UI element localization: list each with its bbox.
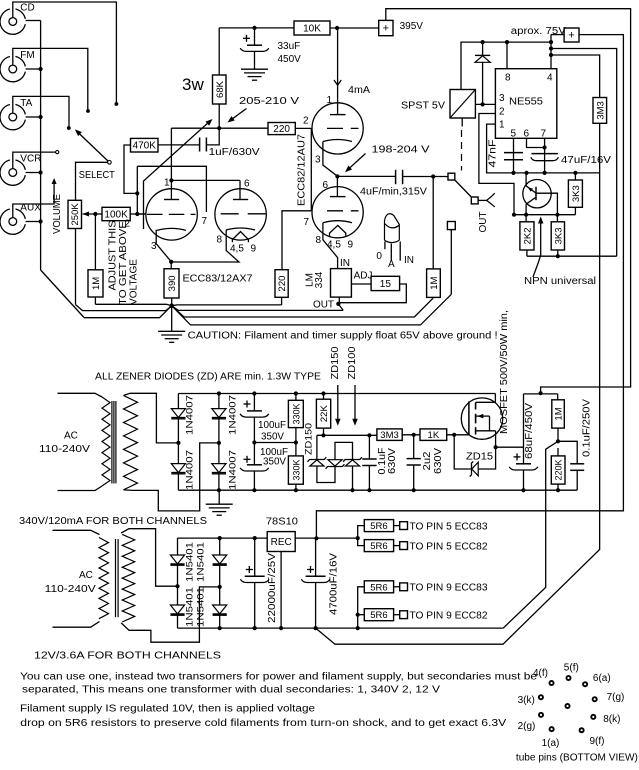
svg-text:1N4007: 1N4007	[184, 450, 195, 490]
svg-text:1M: 1M	[91, 277, 102, 290]
svg-text:MOSFET 500V/50W min,: MOSFET 500V/50W min,	[499, 310, 510, 434]
svg-text:3M3: 3M3	[380, 430, 398, 441]
svg-text:2K2: 2K2	[522, 227, 533, 244]
svg-text:78S10: 78S10	[266, 517, 298, 528]
svg-text:IN: IN	[404, 255, 414, 266]
svg-text:VCR: VCR	[20, 154, 41, 165]
svg-text:5R6: 5R6	[370, 582, 387, 593]
svg-text:aprox. 75V: aprox. 75V	[511, 26, 566, 37]
svg-text:drop on 5R6 resistors to prese: drop on 5R6 resistors to preserve cold f…	[20, 718, 506, 729]
svg-text:2: 2	[303, 116, 309, 127]
svg-text:4mA: 4mA	[348, 85, 370, 96]
svg-text:7: 7	[304, 217, 310, 228]
svg-text:198-204 V: 198-204 V	[372, 145, 430, 156]
svg-text:12V/3.6A FOR BOTH CHANNELS: 12V/3.6A FOR BOTH CHANNELS	[34, 651, 221, 662]
svg-text:334: 334	[314, 271, 325, 288]
svg-text:22K: 22K	[319, 405, 330, 423]
svg-text:340V/120mA FOR BOTH CHANNELS: 340V/120mA FOR BOTH CHANNELS	[19, 516, 207, 527]
svg-text:REC: REC	[271, 537, 292, 548]
svg-text:+: +	[383, 23, 389, 35]
svg-text:4700uF/16V: 4700uF/16V	[328, 553, 339, 615]
svg-text:1N4007: 1N4007	[228, 450, 239, 490]
svg-text:1N5401: 1N5401	[184, 542, 195, 582]
svg-text:OUT: OUT	[313, 300, 334, 311]
svg-text:AC: AC	[79, 570, 93, 581]
svg-text:3(k): 3(k)	[518, 695, 535, 706]
svg-text:1M: 1M	[429, 276, 440, 289]
svg-text:350V: 350V	[261, 432, 284, 443]
svg-text:1N4007: 1N4007	[184, 395, 195, 435]
svg-text:8: 8	[316, 235, 322, 246]
svg-text:250K: 250K	[70, 203, 81, 226]
svg-text:8(k): 8(k)	[603, 714, 620, 725]
svg-text:NPN universal: NPN universal	[524, 276, 596, 287]
svg-text:ECC82/12AU7: ECC82/12AU7	[297, 134, 308, 206]
svg-text:SELECT: SELECT	[79, 170, 115, 181]
svg-text:1: 1	[499, 120, 505, 131]
svg-text:ZD100: ZD100	[347, 346, 358, 379]
svg-text:630V: 630V	[387, 448, 398, 474]
svg-text:3M3: 3M3	[595, 101, 606, 119]
svg-text:TO PIN 9 ECC82: TO PIN 9 ECC82	[410, 610, 488, 621]
svg-text:9(f): 9(f)	[590, 736, 605, 747]
svg-text:110-240V: 110-240V	[39, 444, 90, 455]
svg-text:+: +	[568, 29, 574, 41]
svg-text:TO PIN 5 ECC83: TO PIN 5 ECC83	[410, 521, 488, 532]
svg-text:7: 7	[541, 129, 547, 140]
svg-text:3K3: 3K3	[571, 185, 582, 202]
svg-text:ZD15: ZD15	[466, 452, 493, 463]
svg-text:33uF: 33uF	[278, 41, 301, 52]
svg-text:10K: 10K	[303, 24, 321, 35]
svg-text:68K: 68K	[215, 80, 226, 98]
svg-text:TO PIN 9 ECC83: TO PIN 9 ECC83	[410, 583, 488, 594]
svg-text:FM: FM	[20, 50, 34, 61]
svg-text:5: 5	[511, 129, 517, 140]
svg-text:Filament supply IS regulated 1: Filament supply IS regulated 10V, then i…	[20, 704, 316, 715]
svg-text:1N5401: 1N5401	[195, 542, 206, 582]
svg-text:A: A	[388, 259, 395, 270]
svg-text:VOLUME: VOLUME	[52, 194, 63, 234]
svg-text:SPST 5V: SPST 5V	[401, 101, 445, 112]
svg-text:2(g): 2(g)	[518, 721, 536, 732]
svg-text:7(g): 7(g)	[607, 692, 625, 703]
svg-text:6: 6	[524, 129, 530, 140]
svg-text:220: 220	[273, 124, 290, 135]
svg-text:0.1uF/250V: 0.1uF/250V	[582, 399, 593, 457]
svg-text:5R6: 5R6	[370, 610, 387, 621]
svg-text:OUT: OUT	[478, 212, 489, 233]
svg-text:You can use one, instead two t: You can use one, instead two transormers…	[20, 672, 538, 683]
svg-text:68uF/450V: 68uF/450V	[524, 403, 535, 459]
svg-text:3K3: 3K3	[553, 227, 564, 244]
svg-text:TA: TA	[20, 98, 32, 109]
svg-text:4,5: 4,5	[327, 240, 341, 251]
svg-text:separated, This means one tran: separated, This means one transformer wi…	[22, 685, 440, 696]
svg-text:205-210 V: 205-210 V	[239, 96, 299, 107]
svg-text:1: 1	[164, 178, 170, 189]
svg-text:2: 2	[125, 219, 131, 230]
svg-text:5(f): 5(f)	[564, 663, 579, 674]
svg-text:630V: 630V	[433, 448, 444, 474]
svg-text:0: 0	[376, 251, 382, 262]
svg-text:4uF/min,315V: 4uF/min,315V	[360, 187, 427, 198]
svg-text:3: 3	[499, 93, 505, 104]
svg-text:tube pins (BOTTOM VIEW): tube pins (BOTTOM VIEW)	[516, 753, 638, 764]
svg-text:1: 1	[327, 95, 333, 106]
svg-text:1uF/630V: 1uF/630V	[209, 147, 260, 158]
svg-text:ZD150: ZD150	[304, 423, 315, 455]
svg-text:220: 220	[277, 276, 288, 292]
svg-text:2u2: 2u2	[422, 451, 433, 470]
svg-text:1N5401: 1N5401	[195, 587, 206, 627]
svg-text:395V: 395V	[400, 21, 424, 32]
svg-text:7: 7	[202, 216, 208, 227]
svg-text:330K: 330K	[291, 460, 301, 481]
svg-text:450V: 450V	[278, 54, 302, 65]
svg-text:4,5: 4,5	[230, 244, 244, 255]
svg-text:330K: 330K	[291, 403, 301, 424]
svg-text:AC: AC	[64, 431, 78, 442]
svg-text:ZD150: ZD150	[330, 346, 341, 379]
svg-text:350V: 350V	[263, 457, 286, 468]
svg-text:5R6: 5R6	[370, 521, 387, 532]
svg-text:220K: 220K	[554, 459, 564, 480]
svg-text:4: 4	[547, 73, 553, 84]
svg-text:110-240V: 110-240V	[45, 584, 96, 595]
svg-text:1M: 1M	[554, 407, 565, 420]
svg-text:ECC83/12AX7: ECC83/12AX7	[183, 274, 253, 285]
svg-text:CD: CD	[20, 3, 34, 14]
svg-text:47nF: 47nF	[487, 140, 498, 168]
svg-text:22000uF/25V: 22000uF/25V	[267, 553, 278, 623]
svg-text:6: 6	[244, 179, 250, 190]
svg-text:3: 3	[315, 155, 321, 166]
svg-text:IN: IN	[340, 258, 350, 269]
svg-text:390: 390	[167, 275, 178, 291]
svg-text:1N5401: 1N5401	[184, 587, 195, 627]
svg-text:CAUTION: Filament and timer su: CAUTION: Filament and timer supply float…	[188, 331, 498, 342]
svg-text:1K: 1K	[428, 430, 440, 441]
svg-text:NE555: NE555	[509, 96, 543, 108]
svg-text:100uF: 100uF	[258, 420, 286, 431]
svg-text:2: 2	[499, 107, 505, 118]
svg-text:6: 6	[323, 180, 329, 191]
svg-text:1(a): 1(a)	[542, 738, 560, 749]
svg-text:3: 3	[151, 241, 157, 252]
svg-text:VOLTAGE: VOLTAGE	[129, 259, 140, 305]
svg-text:4(f): 4(f)	[533, 668, 548, 679]
svg-text:6(a): 6(a)	[593, 673, 611, 684]
svg-text:3w: 3w	[182, 75, 204, 94]
svg-text:ADJ: ADJ	[354, 271, 373, 282]
svg-text:TO PIN 5 ECC82: TO PIN 5 ECC82	[410, 541, 488, 552]
svg-text:1N4007: 1N4007	[228, 395, 239, 435]
svg-text:15: 15	[380, 279, 392, 290]
svg-text:9: 9	[251, 244, 257, 255]
svg-text:9: 9	[348, 240, 354, 251]
svg-text:47uF/16V: 47uF/16V	[561, 155, 611, 166]
svg-text:5R6: 5R6	[370, 541, 387, 552]
svg-text:8: 8	[505, 73, 511, 84]
svg-text:8: 8	[217, 235, 223, 246]
svg-text:470K: 470K	[133, 141, 157, 152]
svg-text:TO GET ABOVE: TO GET ABOVE	[118, 221, 129, 305]
svg-text:ALL ZENER DIODES (ZD) ARE min.: ALL ZENER DIODES (ZD) ARE min. 1.3W TYPE	[95, 372, 321, 383]
